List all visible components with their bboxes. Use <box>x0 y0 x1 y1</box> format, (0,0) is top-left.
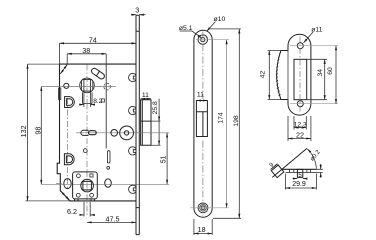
plate screw holes <box>76 174 93 197</box>
vertical slot capsule <box>107 151 110 163</box>
lower follower centerline <box>41 183 169 185</box>
angle arc <box>307 149 316 169</box>
dimension 132 <box>27 64 29 201</box>
bottom hole centerline <box>190 207 229 209</box>
cylinder circle <box>120 126 134 140</box>
dimension 174 <box>226 40 228 208</box>
thickness mini dimension <box>316 164 323 178</box>
faceplate bottom hole <box>198 203 208 213</box>
strip clip 3 <box>129 147 136 155</box>
latch bolt side view <box>141 100 151 146</box>
dimension 74 <box>60 43 137 64</box>
strike plate outline <box>288 34 311 115</box>
svg-text:132: 132 <box>19 125 28 137</box>
strike inner rectangle <box>294 59 307 99</box>
svg-text:42: 42 <box>259 71 266 79</box>
dimension 5 arrows <box>293 178 308 180</box>
boxed 5 pocket <box>297 169 302 177</box>
oblique arrow at body corner <box>60 65 67 74</box>
latch underside line <box>286 172 317 174</box>
dimension 18 <box>194 219 212 235</box>
strike bottom hole <box>297 101 303 107</box>
svg-text:18: 18 <box>198 225 206 234</box>
svg-text:38: 38 <box>82 46 90 55</box>
svg-text:34: 34 <box>317 69 324 77</box>
dashed circle right <box>104 83 111 90</box>
spring knob capsule <box>89 131 97 135</box>
svg-text:5: 5 <box>298 173 302 179</box>
dimension 198 <box>208 29 241 218</box>
svg-text:51: 51 <box>161 155 168 163</box>
cylinder inner circle <box>124 131 128 135</box>
faceplate strip side view <box>136 15 139 234</box>
left column centerline <box>66 98 68 190</box>
strike vertical centerline <box>299 37 301 113</box>
strip clip 2 <box>129 106 136 114</box>
dimension 38 <box>67 54 106 64</box>
latch baseline <box>281 168 316 170</box>
body top edge extension line <box>28 63 60 65</box>
svg-text:12.3: 12.3 <box>294 121 307 128</box>
dimension 25.8 <box>151 99 161 146</box>
edge slot <box>59 88 61 99</box>
keyhole small circle <box>111 130 118 137</box>
body bottom edge extension line <box>25 200 70 202</box>
svg-text:74: 74 <box>89 36 97 45</box>
strip clip 1 <box>129 73 136 81</box>
svg-text:174: 174 <box>218 112 225 124</box>
slanted slot <box>90 67 105 80</box>
faceplate top hole <box>198 35 208 45</box>
svg-text:198: 198 <box>233 115 240 127</box>
upper left screw hole <box>64 83 69 88</box>
svg-text:22: 22 <box>296 130 304 139</box>
upper centerline <box>41 86 116 88</box>
oval left centerline <box>56 183 62 185</box>
dimension 22 <box>288 116 311 141</box>
internal vertical plate line <box>105 64 107 148</box>
follower vertical centerline <box>86 65 88 217</box>
dimension 34 <box>307 59 327 99</box>
top hole centerline <box>196 39 229 41</box>
chamfer with arrows <box>61 191 70 201</box>
faceplate vertical centerline <box>202 32 204 217</box>
lock body outline <box>57 64 136 201</box>
svg-text:3: 3 <box>135 6 139 15</box>
svg-text:60: 60 <box>327 67 334 75</box>
upper D feature <box>65 97 75 108</box>
svg-text:11: 11 <box>197 91 204 98</box>
dimension 60 <box>335 46 337 104</box>
dimension 29.9 <box>285 174 316 190</box>
latch opening <box>196 101 207 137</box>
dimension 8.2 <box>79 92 95 108</box>
dimension 11 (side latch) <box>141 98 151 100</box>
dimension 98 <box>40 87 42 185</box>
dimension 42 <box>268 51 281 100</box>
dimension 47.5 <box>87 221 136 223</box>
latch section ticks <box>289 169 310 172</box>
strike top hole <box>297 43 303 49</box>
escutcheon square plate <box>73 172 98 201</box>
dimension 11 (faceplate) <box>196 100 207 102</box>
latch tail square <box>271 164 284 178</box>
oval right <box>105 179 112 187</box>
svg-text:29.9: 29.9 <box>292 181 306 188</box>
spring slot capsule <box>81 130 89 135</box>
latch slope line <box>272 148 307 177</box>
strip clip 4 <box>129 185 136 193</box>
small hole mid body <box>83 149 87 153</box>
svg-text:47.5: 47.5 <box>106 214 120 223</box>
lower D feature <box>64 154 74 165</box>
faceplate outline <box>194 30 212 217</box>
svg-text:98: 98 <box>34 127 43 135</box>
dimension 6.2 <box>79 202 94 217</box>
dimension 51 <box>166 133 168 185</box>
lip hatching <box>276 52 281 96</box>
svg-text:6.2: 6.2 <box>67 207 77 216</box>
strike lip <box>277 51 288 100</box>
dimension 3 <box>131 14 145 16</box>
dimension 12.3 <box>294 116 306 130</box>
oval left <box>64 179 71 189</box>
small hole below slot <box>107 166 110 169</box>
follower square 8.2 <box>80 78 95 103</box>
main horizontal centerline <box>76 132 169 134</box>
svg-text:11: 11 <box>142 92 149 99</box>
svg-text:ø0.2: ø0.2 <box>309 149 322 163</box>
svg-text:25.8: 25.8 <box>152 101 159 114</box>
strike hole centerlines <box>290 46 338 104</box>
